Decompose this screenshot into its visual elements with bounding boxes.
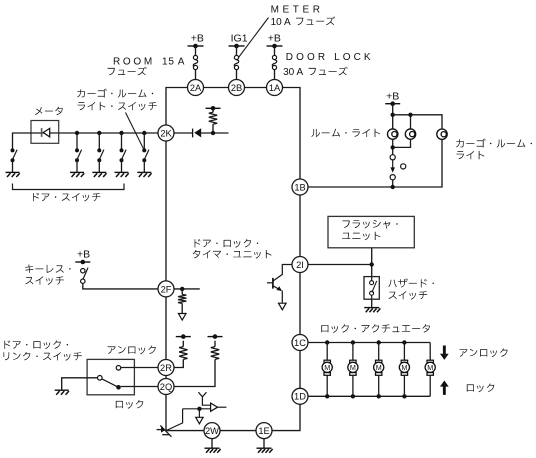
svg-text:1C: 1C xyxy=(294,338,306,348)
svg-text:2F: 2F xyxy=(161,284,172,294)
svg-text:M: M xyxy=(350,363,356,372)
svg-text:10 A: 10 A xyxy=(271,17,291,28)
svg-text:1A: 1A xyxy=(269,83,281,93)
svg-text:+B: +B xyxy=(77,249,90,261)
svg-text:30 A: 30 A xyxy=(283,67,303,78)
svg-text:2A: 2A xyxy=(190,83,202,93)
svg-text:M: M xyxy=(376,363,382,372)
svg-text:IG1: IG1 xyxy=(231,32,248,44)
svg-text:2R: 2R xyxy=(160,363,172,373)
svg-text:M: M xyxy=(427,363,433,372)
svg-text:+B: +B xyxy=(191,32,204,44)
svg-text:2B: 2B xyxy=(231,83,242,93)
svg-text:15 A: 15 A xyxy=(162,57,185,68)
svg-text:ROOM: ROOM xyxy=(113,57,155,68)
svg-text:+B: +B xyxy=(386,91,399,103)
svg-text:+B: +B xyxy=(268,32,281,44)
svg-text:2I: 2I xyxy=(296,260,304,270)
svg-text:1D: 1D xyxy=(294,392,306,402)
svg-text:METER: METER xyxy=(271,5,324,16)
svg-text:2Q: 2Q xyxy=(160,382,172,392)
svg-text:DOOR LOCK: DOOR LOCK xyxy=(286,52,374,63)
svg-text:M: M xyxy=(324,363,330,372)
svg-text:2W: 2W xyxy=(205,426,219,436)
svg-text:M: M xyxy=(401,363,407,372)
svg-text:1B: 1B xyxy=(294,182,305,192)
svg-text:2K: 2K xyxy=(160,128,172,138)
svg-text:1E: 1E xyxy=(258,426,269,436)
